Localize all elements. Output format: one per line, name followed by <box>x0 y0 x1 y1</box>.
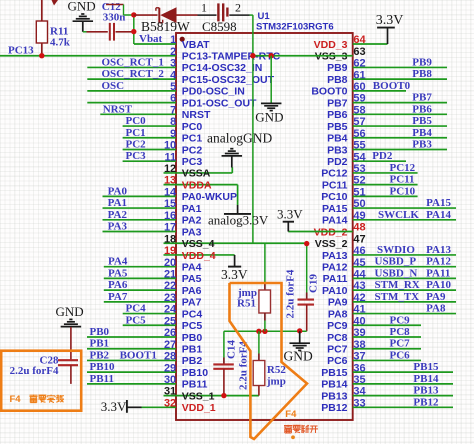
svg-text:63: 63 <box>353 46 365 58</box>
svg-text:PC5: PC5 <box>126 314 147 326</box>
svg-text:PA15: PA15 <box>322 203 348 215</box>
svg-text:13: 13 <box>164 175 176 187</box>
svg-text:PA6: PA6 <box>182 285 202 297</box>
svg-text:analog3.3V: analog3.3V <box>208 213 269 228</box>
svg-text:2: 2 <box>235 1 241 15</box>
svg-text:PC15-OSC32_OUT: PC15-OSC32_OUT <box>182 74 275 86</box>
svg-text:PB2: PB2 <box>182 355 203 367</box>
svg-text:47: 47 <box>353 233 365 245</box>
svg-text:B5819W: B5819W <box>141 19 190 34</box>
svg-text:10: 10 <box>164 140 176 152</box>
svg-text:9: 9 <box>170 128 176 140</box>
svg-text:PD0-OSC_IN: PD0-OSC_IN <box>182 86 245 98</box>
svg-text:PA8: PA8 <box>328 308 348 320</box>
svg-text:PA5: PA5 <box>108 267 128 279</box>
svg-text:PB4: PB4 <box>327 133 348 145</box>
svg-text:5: 5 <box>170 81 176 93</box>
svg-text:19: 19 <box>164 245 176 257</box>
svg-text:PA6: PA6 <box>108 279 128 291</box>
svg-text:3.3V: 3.3V <box>277 207 303 222</box>
svg-text:PA11: PA11 <box>323 273 348 285</box>
svg-text:PC1: PC1 <box>182 133 203 145</box>
svg-text:STM_RX: STM_RX <box>375 279 420 291</box>
svg-text:PB1: PB1 <box>90 338 110 350</box>
svg-text:PA14: PA14 <box>426 209 451 221</box>
svg-text:PA15: PA15 <box>426 197 451 209</box>
svg-text:11: 11 <box>165 151 177 163</box>
svg-text:PB0: PB0 <box>90 326 110 338</box>
svg-text:VDD_1: VDD_1 <box>182 402 216 414</box>
svg-text:PB15: PB15 <box>413 361 439 373</box>
svg-text:SWCLK: SWCLK <box>378 209 419 221</box>
svg-text:PC3: PC3 <box>126 150 147 162</box>
svg-text:VSSA: VSSA <box>182 168 211 180</box>
svg-text:PC7: PC7 <box>390 338 411 350</box>
svg-text:R51: R51 <box>237 298 256 310</box>
svg-text:2: 2 <box>170 46 176 58</box>
svg-text:PC8: PC8 <box>327 332 348 344</box>
svg-text:PC9: PC9 <box>327 320 348 332</box>
svg-text:PB12: PB12 <box>321 402 347 414</box>
svg-text:PA2: PA2 <box>108 209 128 221</box>
svg-text:PB6: PB6 <box>327 109 348 121</box>
svg-text:PA0-WKUP: PA0-WKUP <box>182 191 237 203</box>
svg-text:VSS_4: VSS_4 <box>182 238 215 250</box>
svg-text:PA5: PA5 <box>182 273 202 285</box>
svg-text:OSC_RCT_2: OSC_RCT_2 <box>102 68 165 80</box>
svg-text:PA1: PA1 <box>108 197 127 209</box>
svg-text:30: 30 <box>164 374 176 386</box>
svg-text:PA3: PA3 <box>108 221 128 233</box>
svg-text:PC11: PC11 <box>322 179 348 191</box>
svg-text:PB0: PB0 <box>182 332 203 344</box>
svg-text:Vbat: Vbat <box>139 33 163 45</box>
svg-text:PC2: PC2 <box>182 144 203 156</box>
svg-text:PA10: PA10 <box>426 279 451 291</box>
svg-text:PD1-OSC_OUT: PD1-OSC_OUT <box>182 97 257 109</box>
svg-text:PB8: PB8 <box>327 74 348 86</box>
svg-text:PB6: PB6 <box>412 103 432 115</box>
svg-text:PB14: PB14 <box>321 379 347 391</box>
svg-text:PB13: PB13 <box>413 385 439 397</box>
svg-text:29: 29 <box>164 362 176 374</box>
svg-text:PC5: PC5 <box>182 320 203 332</box>
svg-text:1: 1 <box>201 1 207 15</box>
svg-text:PC8: PC8 <box>390 326 411 338</box>
svg-text:F4: F4 <box>10 394 22 405</box>
svg-text:VSS_1: VSS_1 <box>182 390 215 402</box>
svg-text:48: 48 <box>353 222 365 234</box>
svg-text:U1: U1 <box>258 11 271 22</box>
svg-text:PA14: PA14 <box>322 215 348 227</box>
svg-text:26: 26 <box>164 327 176 339</box>
svg-text:PB4: PB4 <box>412 127 432 139</box>
svg-text:OSC_RCT_1: OSC_RCT_1 <box>102 56 164 68</box>
svg-text:PB15: PB15 <box>321 367 347 379</box>
svg-text:USBD_P: USBD_P <box>375 256 417 268</box>
svg-text:PA7: PA7 <box>182 297 202 309</box>
svg-text:BOOT1: BOOT1 <box>120 349 157 361</box>
svg-text:PB2: PB2 <box>90 349 110 361</box>
svg-text:4: 4 <box>170 69 177 81</box>
svg-text:PC0: PC0 <box>126 115 147 127</box>
svg-text:PC7: PC7 <box>327 344 348 356</box>
svg-text:PB7: PB7 <box>412 92 432 104</box>
svg-text:25: 25 <box>164 315 176 327</box>
svg-text:PB11: PB11 <box>182 379 208 391</box>
svg-text:3.3V: 3.3V <box>221 267 248 282</box>
svg-text:PB9: PB9 <box>412 56 432 68</box>
svg-text:VBAT: VBAT <box>182 39 210 51</box>
svg-text:STM32F103RGT6: STM32F103RGT6 <box>256 22 334 33</box>
svg-text:VDD_4: VDD_4 <box>182 250 216 262</box>
svg-text:F4: F4 <box>285 409 297 420</box>
svg-text:GND: GND <box>255 110 283 125</box>
svg-text:VDDA: VDDA <box>182 179 212 191</box>
svg-text:PC6: PC6 <box>390 349 411 361</box>
svg-text:OSC: OSC <box>102 80 125 92</box>
svg-text:PA9: PA9 <box>426 291 446 303</box>
svg-text:PB9: PB9 <box>327 62 348 74</box>
svg-text:PB14: PB14 <box>413 373 439 385</box>
svg-text:GND: GND <box>68 0 96 14</box>
svg-text:PA3: PA3 <box>182 226 202 238</box>
svg-text:17: 17 <box>164 222 176 234</box>
svg-text:3.3V: 3.3V <box>376 13 404 28</box>
svg-text:12: 12 <box>164 163 176 175</box>
svg-text:PB13: PB13 <box>321 390 347 402</box>
svg-text:21: 21 <box>164 269 176 281</box>
svg-text:GND: GND <box>284 349 313 364</box>
svg-text:PB7: PB7 <box>327 97 348 109</box>
svg-text:PA12: PA12 <box>426 256 451 268</box>
svg-text:PA8: PA8 <box>426 303 446 315</box>
svg-text:14: 14 <box>164 186 177 198</box>
svg-text:PC6: PC6 <box>327 355 348 367</box>
svg-text:BOOT0: BOOT0 <box>373 80 411 92</box>
svg-text:BOOT0: BOOT0 <box>311 86 347 98</box>
svg-text:3.3V: 3.3V <box>101 399 127 414</box>
svg-text:330n: 330n <box>103 12 126 24</box>
svg-text:PC2: PC2 <box>126 138 147 150</box>
svg-text:analogGND: analogGND <box>207 131 272 146</box>
svg-text:22: 22 <box>164 280 176 292</box>
svg-text:PC9: PC9 <box>390 314 411 326</box>
svg-text:USBD_N: USBD_N <box>375 267 418 279</box>
svg-text:PB11: PB11 <box>90 373 114 385</box>
svg-text:PA10: PA10 <box>322 285 348 297</box>
svg-text:PA2: PA2 <box>182 215 202 227</box>
svg-text:PB3: PB3 <box>327 144 348 156</box>
svg-text:PB10: PB10 <box>182 367 208 379</box>
svg-text:28: 28 <box>164 351 176 363</box>
svg-text:PC14-OSC32_IN: PC14-OSC32_IN <box>182 62 263 74</box>
svg-text:PA0: PA0 <box>108 185 128 197</box>
svg-text:NRST: NRST <box>103 103 133 115</box>
svg-text:4.7k: 4.7k <box>50 37 71 49</box>
svg-text:C19: C19 <box>308 274 320 293</box>
svg-text:PC10: PC10 <box>390 185 416 197</box>
svg-text:31: 31 <box>164 386 176 398</box>
svg-text:2.2u forF4: 2.2u forF4 <box>10 365 59 377</box>
svg-text:7: 7 <box>170 104 176 116</box>
svg-text:PA13: PA13 <box>426 244 451 256</box>
svg-text:PB12: PB12 <box>413 396 439 408</box>
svg-text:PB1: PB1 <box>182 344 203 356</box>
svg-text:32: 32 <box>164 397 176 409</box>
svg-text:jmp: jmp <box>266 376 286 388</box>
svg-text:3: 3 <box>170 58 176 70</box>
svg-text:PA11: PA11 <box>426 267 450 279</box>
svg-text:27: 27 <box>164 339 176 351</box>
svg-text:8: 8 <box>170 116 176 128</box>
svg-text:PD2: PD2 <box>372 150 393 162</box>
svg-text:2.2u forF4: 2.2u forF4 <box>285 269 297 318</box>
svg-text:PB8: PB8 <box>412 68 432 80</box>
svg-text:PC4: PC4 <box>126 303 147 315</box>
svg-text:VSS_2: VSS_2 <box>315 238 348 250</box>
svg-text:16: 16 <box>164 210 176 222</box>
svg-text:PC3: PC3 <box>182 156 203 168</box>
svg-text:NRST: NRST <box>182 109 211 121</box>
svg-text:20: 20 <box>164 257 176 269</box>
svg-text:PC0: PC0 <box>182 121 203 133</box>
svg-text:PC11: PC11 <box>390 174 415 186</box>
svg-text:PC1: PC1 <box>126 127 146 139</box>
svg-text:SWDIO: SWDIO <box>377 244 415 256</box>
svg-text:PA7: PA7 <box>108 291 128 303</box>
svg-text:1: 1 <box>170 34 176 46</box>
svg-text:GND: GND <box>56 304 84 319</box>
svg-text:PC4: PC4 <box>182 308 203 320</box>
svg-text:VDD_3: VDD_3 <box>314 39 348 51</box>
svg-text:15: 15 <box>164 198 176 210</box>
svg-text:6: 6 <box>170 93 176 105</box>
svg-text:PB10: PB10 <box>90 361 116 373</box>
svg-text:PA4: PA4 <box>108 256 128 268</box>
svg-text:PC12: PC12 <box>321 168 347 180</box>
svg-text:PA9: PA9 <box>328 297 348 309</box>
svg-text:18: 18 <box>164 233 176 245</box>
svg-text:PB5: PB5 <box>412 115 432 127</box>
svg-text:PC12: PC12 <box>390 162 416 174</box>
svg-text:R52: R52 <box>267 364 286 376</box>
svg-text:STM_TX: STM_TX <box>375 291 420 303</box>
svg-text:PA13: PA13 <box>322 250 348 262</box>
svg-text:PB5: PB5 <box>327 121 348 133</box>
svg-text:PA1: PA1 <box>182 203 202 215</box>
svg-text:23: 23 <box>164 292 176 304</box>
svg-text:PA12: PA12 <box>322 261 348 273</box>
svg-text:PC13: PC13 <box>8 45 34 57</box>
svg-text:PD2: PD2 <box>327 156 348 168</box>
svg-text:24: 24 <box>164 304 177 316</box>
svg-text:C14: C14 <box>226 340 238 359</box>
svg-text:PA4: PA4 <box>182 261 202 273</box>
svg-text:PB3: PB3 <box>412 138 432 150</box>
svg-text:PC10: PC10 <box>321 191 347 203</box>
